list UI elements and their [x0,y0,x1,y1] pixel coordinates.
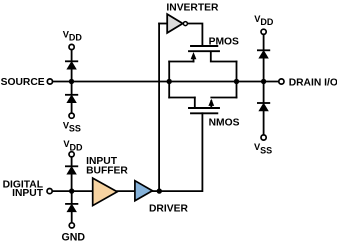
diode D1 source-to-VDD [66,61,77,70]
wire transmission-gate loop right vertical [236,62,238,98]
label VDD right [254,14,274,27]
svg-text:BUFFER: BUFFER [86,166,128,177]
wire main source-drain line [52,81,278,83]
wire diode D2 to VSS [71,103,73,113]
node driver output junction [157,188,162,193]
transistor NMOS right terminal arrow [208,99,214,107]
wire diode D1 to main line [71,70,73,82]
wire driver to junction [152,190,159,192]
wire transmission-gate loop left vertical [168,62,170,98]
label INPUT BUFFER [86,156,128,177]
node source ESD junction [69,79,74,84]
wire inverter input stub [159,23,167,25]
inverter U1 output bubble [183,22,187,26]
wire diode D3 to main line [263,59,265,82]
op-amp U1 inverter triangle [167,14,183,33]
diode D5 input-to-VDD [66,166,77,175]
label VDD top-left [63,29,83,42]
diode D2 VSS-to-source [66,94,77,103]
terminal GND open circle [69,223,74,228]
wire diode D6 to GND [71,212,73,222]
label DIGITAL INPUT [3,180,44,200]
terminal VDD top-left open circle [69,44,74,49]
label VSS left [63,120,81,133]
svg-text:INPUT: INPUT [12,188,44,199]
wire NMOS right terminal to loop right [211,97,236,99]
svg-text:DD: DD [69,33,82,43]
transistor PMOS left terminal arrow [191,52,197,62]
wire NMOS left terminal to loop left [169,97,195,99]
wire diode D4 to VSS right [263,111,265,134]
diode D6 GND-to-input [66,204,77,213]
wire inverter output to PMOS gate [188,24,202,46]
buffer U2 input buffer triangle [93,178,118,206]
node loop left junction [167,79,172,84]
svg-text:SS: SS [260,145,272,155]
wire NMOS gate to driver [159,113,202,191]
node digital input junction [69,188,74,193]
svg-text:NMOS: NMOS [209,118,240,129]
wire buffer to driver [117,190,135,192]
label VDD digital [63,139,83,152]
driver U3 triangle [135,181,153,201]
terminal VSS left open circle [69,113,74,118]
wire inverter feedback vertical [158,24,160,192]
svg-text:DD: DD [70,142,83,152]
transistor PMOS channel bar [189,50,219,52]
svg-text:DD: DD [260,17,273,27]
wire main line to diode D2 [71,82,73,95]
label VSS right [254,142,272,155]
transistor NMOS gate bar [191,112,217,114]
transistor NMOS left terminal [194,98,196,108]
transistor PMOS right terminal [211,52,237,61]
diode D3 drain-to-VDD [258,50,269,59]
terminal DRAIN I/O open circle [279,79,284,84]
wire main line to diode D4 [263,82,265,103]
wire PMOS left terminal to loop left [169,61,193,63]
wire diode D5 to input line [71,175,73,192]
svg-text:INVERTER: INVERTER [166,3,219,14]
node loop right junction [234,79,239,84]
svg-text:DRIVER: DRIVER [149,204,188,215]
wire VDD to diode D1 [71,50,73,61]
transistor PMOS gate bar [191,45,217,47]
wire digital input to buffer [53,190,93,192]
terminal SOURCE open circle [47,79,52,84]
svg-text:GND: GND [62,232,86,244]
wire VDD right to diode D3 [263,35,265,50]
diode D4 VSS-to-drain [258,103,269,112]
terminal DIGITAL INPUT open circle [47,189,52,194]
terminal VDD right open circle [261,29,266,34]
wire VDD digital to diode D5 [71,157,73,166]
wire input line to diode D6 [71,191,73,204]
terminal VSS right open circle [261,135,266,140]
node drain ESD junction [261,79,266,84]
svg-text:SOURCE: SOURCE [1,77,45,88]
terminal VDD digital open circle [69,152,74,157]
transistor NMOS channel bar [189,107,219,109]
svg-text:DRAIN I/O: DRAIN I/O [289,77,337,88]
svg-text:SS: SS [69,123,81,133]
